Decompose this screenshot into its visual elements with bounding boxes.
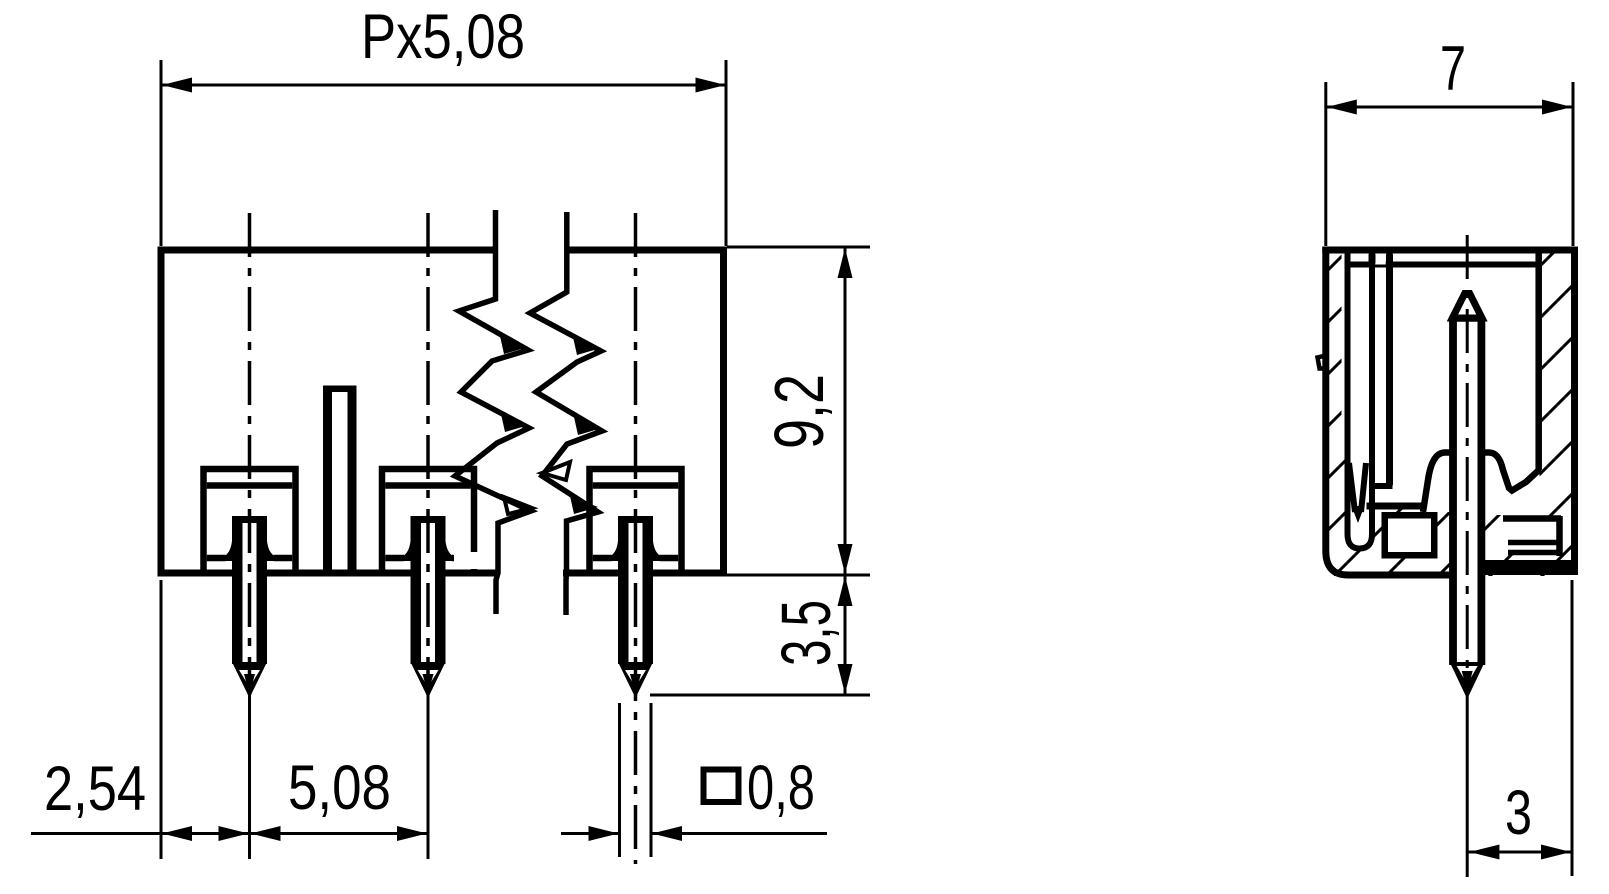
housing outline side view	[1326, 247, 1450, 576]
shelf line upper	[1372, 483, 1393, 489]
center tab	[323, 385, 357, 575]
dimension 3,5 extension bottom	[650, 694, 870, 697]
dimension Px5,08 extension line left	[160, 60, 163, 246]
contact left upper	[1369, 255, 1376, 262]
dimension 7 line	[1326, 106, 1573, 109]
dimension 0,8 line	[561, 832, 620, 835]
svg-text:2,54: 2,54	[44, 754, 146, 824]
socket housing pin 3	[590, 469, 682, 576]
housing top edge left segment	[158, 247, 496, 254]
socket housing pin 1	[204, 469, 296, 576]
svg-text:3,5: 3,5	[767, 600, 845, 666]
dimension Px5,08 line	[161, 84, 726, 87]
dimension 5,08 line	[250, 832, 429, 835]
dimension 3,5 extension mid	[727, 574, 870, 577]
break line right	[530, 212, 602, 615]
dimension 0,8 extension lines	[618, 703, 621, 857]
contact wedge	[1349, 463, 1355, 512]
pin 1 centerline	[248, 213, 252, 695]
left wall inner line and slot	[1348, 250, 1373, 549]
side pin	[1453, 318, 1482, 666]
housing bottom edge segments	[158, 570, 233, 577]
pin 2 centerline	[426, 213, 430, 695]
dimension 9,2 line	[844, 247, 847, 575]
dimension 3,5 line	[844, 575, 847, 695]
dimension 3 extension right	[1571, 580, 1574, 876]
right funnel hump and vee	[1481, 453, 1543, 516]
break line left	[455, 210, 531, 614]
right wall inner line	[1535, 250, 1542, 470]
svg-text:5,08: 5,08	[288, 753, 391, 823]
dimension 2,54 extension left	[160, 580, 163, 859]
anchor box	[1385, 515, 1435, 555]
socket housing pin 2	[382, 469, 474, 576]
svg-text:9,2: 9,2	[760, 374, 838, 449]
svg-text:3: 3	[1505, 778, 1532, 848]
latch bump	[1318, 356, 1326, 369]
inner top line	[1345, 262, 1539, 268]
housing top edge right segment	[567, 247, 727, 254]
dimension 3 line	[1468, 851, 1572, 854]
svg-text:0,8: 0,8	[747, 753, 815, 823]
left funnel hump	[1423, 453, 1453, 513]
contact right line	[1386, 255, 1393, 484]
pin 2	[403, 541, 415, 561]
pin 1	[225, 541, 237, 561]
contact fold arch	[1375, 254, 1386, 265]
housing left edge	[158, 247, 165, 577]
pin 3	[611, 541, 623, 561]
svg-text:7: 7	[1440, 34, 1466, 104]
dimension 0,8 square symbol	[704, 770, 739, 803]
dimension Px5,08 extension line right	[725, 60, 728, 246]
dimension 7 extension right	[1572, 82, 1575, 246]
housing right edge	[720, 247, 727, 577]
step stack	[1506, 521, 1556, 555]
break region blank	[454, 552, 481, 569]
pin 3 centerline	[634, 213, 638, 864]
dimension 9,2 extension top	[727, 246, 870, 249]
dimension 7 extension left	[1324, 82, 1327, 246]
svg-text:Px5,08: Px5,08	[361, 2, 525, 72]
dimension 2,54 line	[31, 832, 250, 835]
side pin centerline	[1466, 235, 1469, 700]
shelf line lower	[1367, 503, 1427, 510]
